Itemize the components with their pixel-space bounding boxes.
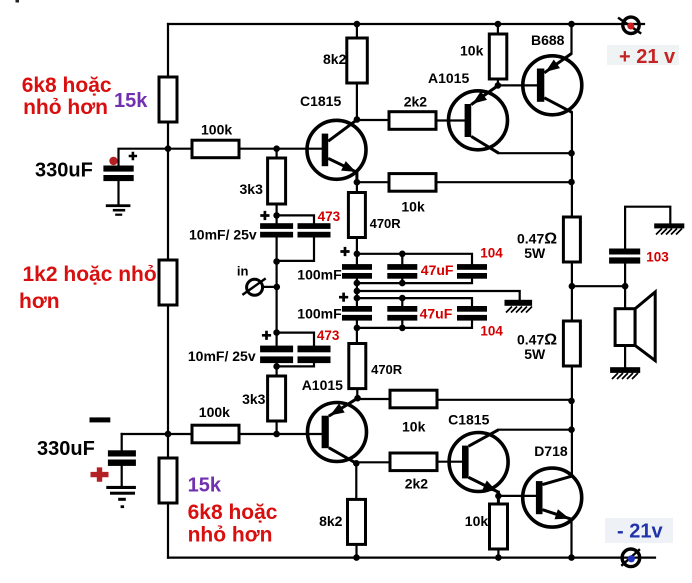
svg-text:nhỏ hơn: nhỏ hơn <box>188 524 273 547</box>
svg-text:470R: 470R <box>370 216 402 231</box>
svg-text:C1815: C1815 <box>448 412 489 428</box>
svg-text:in: in <box>237 264 249 279</box>
svg-text:100mF: 100mF <box>297 305 342 321</box>
svg-text:330uF: 330uF <box>35 160 93 182</box>
svg-text:100mF: 100mF <box>297 266 342 282</box>
svg-text:103: 103 <box>646 250 669 265</box>
svg-text:47uF: 47uF <box>420 306 453 322</box>
svg-text:5W: 5W <box>524 245 546 261</box>
svg-text:B688: B688 <box>531 32 565 48</box>
svg-text:1k2 hoặc nhỏ: 1k2 hoặc nhỏ <box>23 263 157 286</box>
svg-text:3k3: 3k3 <box>240 181 264 197</box>
svg-text:A1015: A1015 <box>302 377 343 393</box>
svg-text:100k: 100k <box>199 404 230 420</box>
svg-text:C1815: C1815 <box>300 93 341 109</box>
svg-text:15k: 15k <box>188 475 222 497</box>
svg-text:6k8 hoặc: 6k8 hoặc <box>22 74 112 97</box>
svg-text:10k: 10k <box>401 199 425 215</box>
svg-text:A1015: A1015 <box>428 70 469 86</box>
svg-text:+ 21 v: + 21 v <box>619 46 676 68</box>
svg-text:2k2: 2k2 <box>405 476 429 492</box>
svg-text:6k8 hoặc: 6k8 hoặc <box>188 501 278 524</box>
svg-text:10k: 10k <box>460 43 484 59</box>
svg-text:104: 104 <box>480 324 503 339</box>
svg-text:8k2: 8k2 <box>323 51 347 67</box>
svg-text:nhỏ hơn: nhỏ hơn <box>23 96 108 119</box>
svg-text:473: 473 <box>318 209 341 224</box>
svg-text:10k: 10k <box>465 513 489 529</box>
svg-text:330uF: 330uF <box>37 438 95 460</box>
svg-text:8k2: 8k2 <box>319 513 343 529</box>
svg-text:10k: 10k <box>402 419 426 435</box>
svg-text:15k: 15k <box>114 90 148 112</box>
svg-text:47uF: 47uF <box>421 262 454 278</box>
svg-text:5W: 5W <box>524 346 546 362</box>
svg-text:104: 104 <box>480 246 503 261</box>
svg-text:hơn: hơn <box>19 290 60 313</box>
svg-text:10mF/ 25v: 10mF/ 25v <box>189 227 257 243</box>
svg-text:- 21v: - 21v <box>617 521 663 543</box>
svg-text:473: 473 <box>317 328 340 343</box>
svg-text:D718: D718 <box>534 443 568 459</box>
svg-text:10mF/ 25v: 10mF/ 25v <box>188 348 256 364</box>
svg-text:3k3: 3k3 <box>242 391 266 407</box>
svg-text:100k: 100k <box>201 122 232 138</box>
svg-text:2k2: 2k2 <box>404 94 428 110</box>
svg-text:470R: 470R <box>371 362 403 377</box>
